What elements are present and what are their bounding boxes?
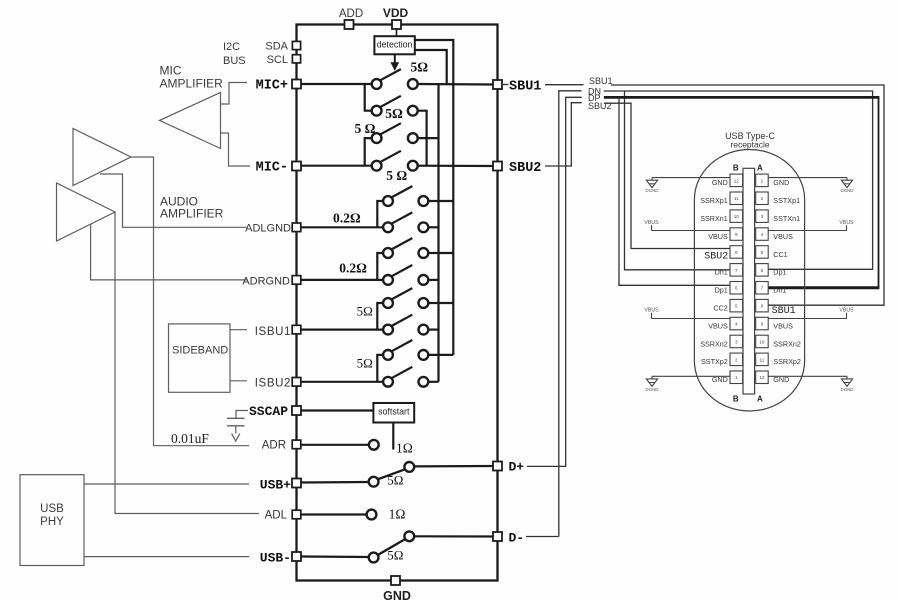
svg-text:4: 4 [735,322,738,327]
svg-text:0.2Ω: 0.2Ω [333,211,361,226]
wire USB+ pin to switch [301,481,369,484]
receptacle pin A12 label GND [773,375,789,384]
receptacle pin B1 box [730,371,743,384]
svg-text:ADR: ADR [262,440,286,452]
svg-text:SSRXp1: SSRXp1 [700,196,728,205]
switch SW7 [383,238,428,258]
svg-text:I2C: I2C [223,41,240,53]
svg-text:SSRXp2: SSRXp2 [773,357,801,366]
label I2C BUS [223,41,246,67]
svg-text:A: A [757,395,763,404]
receptacle pin A4 box [756,228,769,241]
receptacle pin B12 box [730,174,743,187]
node ADL contact [301,510,376,520]
USB PHY block [20,475,84,566]
receptacle pin A11 label SSRXp2 [773,357,801,366]
svg-text:softstart: softstart [378,406,410,416]
wire switch row9 to bus B [428,302,453,304]
svg-text:ADD: ADD [339,8,363,20]
receptacle pin B9 box [730,228,743,241]
receptacle pin B11 box [730,192,743,205]
svg-text:9: 9 [761,322,764,327]
receptacle outline (stadium) [694,150,804,412]
receptacle pin A2 box [756,192,769,205]
wire switch row3 to bus A [417,137,438,139]
pin USB+ [260,478,301,493]
label 1ohm ADR row [396,441,413,456]
power VBUS lower-left [644,308,730,319]
wire vertical bus A [437,84,439,382]
svg-text:5Ω: 5Ω [387,548,403,563]
wire detection output to switch bus B [415,40,454,355]
switch SW6 [383,212,428,232]
wire switch to D+ pin [415,465,494,468]
label DN net [588,86,601,96]
pin ADR [262,440,301,452]
svg-text:SSRXn2: SSRXn2 [773,339,801,348]
svg-text:6: 6 [735,286,738,291]
svg-text:SSTXp2: SSTXp2 [701,357,728,366]
wire ISBU1 pin to switch row10 [301,329,384,331]
receptacle pin B3 label SSRXn2 [700,339,728,348]
pin SSCAP [249,404,301,419]
pin D+ (right) [493,460,524,475]
receptacle pin A3 label SSTXn1 [773,214,800,223]
power VBUS upper-right [768,220,854,231]
svg-text:VBUS: VBUS [708,232,728,241]
label 5ohm pair ISBU1 [357,304,373,319]
receptacle pin A9 box [756,317,769,330]
wire ISBU2 branch to switch row11 [377,355,383,382]
switch SW1 (MIC+ to SBU1) [372,69,418,89]
wire switch row12 to bus A [428,381,439,383]
svg-text:CC1: CC1 [773,250,787,259]
wire SBU2 net from pin to receptacle B8 [545,103,730,249]
receptacle pin A1 box [756,174,769,187]
detection block [374,29,414,55]
receptacle pin A6 box [756,264,769,277]
wire switch row11 to bus B [428,354,453,356]
svg-text:USB: USB [40,503,64,515]
svg-text:7: 7 [735,268,738,273]
svg-text:2: 2 [735,357,738,362]
svg-text:VBUS: VBUS [839,220,854,226]
svg-text:4: 4 [761,232,764,237]
svg-text:12: 12 [759,375,765,380]
wire switch to D- pin [415,535,494,537]
svg-text:Dp1: Dp1 [715,286,728,295]
svg-text:7: 7 [761,286,764,291]
svg-text:SBU2: SBU2 [509,161,541,176]
svg-text:ADL: ADL [265,510,288,522]
arrow from detection to switch [390,54,399,71]
wire MIC- pin to switch row4 [301,165,372,167]
receptacle pin A10 box [756,335,769,348]
pin ISBU1 [255,325,301,338]
wire ADLGND pin to switch row6 [301,226,384,228]
svg-text:SBU1: SBU1 [509,80,541,95]
label 0.2ohm pair ADLGND [333,211,361,226]
switch SW-D+ (USB+ to D+) [369,462,414,487]
svg-text:A: A [757,163,763,172]
svg-text:AMPLIFIER: AMPLIFIER [160,77,224,91]
label SBU2 net [588,101,612,111]
svg-text:1: 1 [735,375,738,380]
svg-text:0.01uF: 0.01uF [171,431,209,446]
label 1ohm ADL row [389,507,406,522]
wire audio amp B output to ADL pin [115,212,259,514]
wire SIDEBAND to ISBU1 [230,329,247,331]
svg-text:6: 6 [761,268,764,273]
wire switch row1 to SBU1 pin [417,83,493,86]
svg-text:SBU2: SBU2 [588,101,612,111]
svg-text:SSTXn1: SSTXn1 [773,214,800,223]
svg-text:VDD: VDD [383,6,409,20]
op-amp audio amplifier B (lower right-pointing triangle) [57,183,116,241]
receptacle pin B7 label Dn1 [715,268,728,277]
switch SW12 [383,367,428,387]
USB Type-C receptacle title [725,131,775,150]
svg-text:SBU2: SBU2 [704,252,728,263]
switch SW10 [383,315,428,335]
wire MIC+ pin to switch row1 [301,83,372,85]
svg-text:SSRXn1: SSRXn1 [700,214,728,223]
pin ISBU2 [255,378,301,390]
svg-text:MIC: MIC [160,64,182,78]
pin GND (bottom) [383,576,411,602]
svg-text:VBUS: VBUS [839,308,854,314]
MIC amplifier label [160,64,224,91]
wire switch row8 to bus A [428,279,439,281]
svg-text:AMPLIFIER: AMPLIFIER [160,207,224,221]
svg-text:5: 5 [735,304,738,309]
svg-text:SSCAP: SSCAP [249,404,288,419]
svg-text:0.2Ω: 0.2Ω [339,261,367,276]
power VBUS upper-left [644,220,730,231]
svg-text:GND: GND [383,589,411,602]
svg-text:SSTXp1: SSTXp1 [773,196,800,205]
receptacle pin A5 label CC1 [773,250,787,259]
switch SW8 [383,265,428,285]
wire switch row5 to bus B [428,200,453,202]
switch SW9 [383,288,428,308]
svg-text:SDA: SDA [265,41,288,53]
receptacle pin B9 label VBUS [708,232,728,241]
svg-text:PHY: PHY [40,516,64,528]
svg-text:DGND: DGND [841,188,854,193]
pin D- (right) [493,531,524,546]
receptacle tongue [743,168,755,394]
receptacle pin B5 box [730,299,743,312]
label 5ohm pair ISBU2 [357,356,373,371]
receptacle pin A7 box [756,282,769,295]
op-amp MIC amplifier (left-pointing triangle) [160,92,221,148]
svg-text:SBU1: SBU1 [772,306,796,317]
receptacle column header B bottom [733,395,739,404]
label 5ohm row3 [355,121,376,136]
svg-text:detection: detection [377,40,413,50]
wire softstart to 1ohm resistor [392,423,394,450]
pin ADL [265,510,301,522]
switch SW2 [372,96,418,116]
svg-text:SBU1: SBU1 [589,76,613,86]
wire SIDEBAND to ISBU2 [230,380,247,382]
svg-text:ADLGND: ADLGND [245,223,291,235]
receptacle pin B6 label Dp1 [715,286,728,295]
svg-text:GND: GND [773,178,789,187]
ground DGND top-right [768,178,853,194]
IC U1 main switch block outline [297,25,498,581]
pin SBU2 (right) [493,161,541,176]
wire MIC+ input to MIC amplifier [221,83,247,105]
pin ADRGND [242,276,300,288]
receptacle pin B1 label GND [712,375,728,384]
wire USB- pin to switch [301,555,369,558]
pin ADLGND [245,223,301,235]
label 5ohm row2 [385,106,403,121]
receptacle pin B6 box [730,282,743,295]
svg-text:10: 10 [734,214,740,219]
receptacle pin A12 box [756,371,769,384]
svg-text:11: 11 [734,196,739,201]
receptacle pin A8 box [756,299,769,312]
switch SW5 [383,186,428,206]
svg-text:2: 2 [761,196,764,201]
svg-text:D+: D+ [509,460,525,475]
SIDEBAND block [169,324,231,392]
receptacle pin B4 box [730,317,743,330]
wire DP net branch to Dp1-B pin [619,97,730,285]
svg-text:Dn1: Dn1 [773,286,786,295]
wire switch row4 to SBU2 pin [417,165,493,168]
svg-text:SCL: SCL [267,54,288,66]
svg-text:Dp1: Dp1 [773,268,786,277]
wire DP net from D+ pin (thick highlighted) [527,97,879,466]
svg-text:D-: D- [509,531,525,546]
receptacle pin B5 label CC2 [713,304,727,313]
wire USB PHY to USB- [84,556,249,558]
svg-text:SIDEBAND: SIDEBAND [172,345,228,357]
wire MIC- input to MIC amplifier [221,133,250,166]
wire ISBU2 pin to switch row12 [301,381,384,383]
svg-text:DGND: DGND [646,387,659,392]
wire audio amp A output to ADR pin [131,157,249,446]
svg-text:12: 12 [734,178,740,183]
label SBU1 net [589,76,613,86]
wire ADRGND to audio amp B input [91,224,248,280]
receptacle pin B8 label SBU2 [704,252,728,263]
svg-text:3: 3 [761,214,764,219]
receptacle pin A3 box [756,210,769,223]
pin VDD [383,6,409,29]
svg-text:VBUS: VBUS [773,232,793,241]
pin SDA [265,41,300,53]
receptacle pin A5 box [756,246,769,259]
svg-text:1Ω: 1Ω [389,507,406,522]
power VBUS lower-right [768,308,854,319]
wire USB PHY to USB+ [84,483,249,485]
label 0.01uF [171,431,209,446]
svg-text:5 Ω: 5 Ω [355,121,376,136]
svg-text:3: 3 [735,339,738,344]
wire MIC- branch to switch row3 [365,138,372,166]
node ADR contact [301,440,379,450]
label 5ohm row1 [411,60,429,75]
receptacle pin B11 label SSRXp1 [700,196,728,205]
wire switch row7 to bus B [428,252,453,254]
capacitor C1 0.01uF on SSCAP [227,411,248,442]
receptacle pin A7 label Dn1 [773,286,786,295]
svg-text:DGND: DGND [841,387,854,392]
pin ADD [339,8,363,29]
wire DN net from D- pin around to Dp1-A pin [526,91,873,537]
pin MIC- [256,161,301,176]
label DP net [588,93,601,103]
wire ADRGND branch to switch row7 [377,253,383,280]
pin USB- [260,551,301,566]
svg-text:USB+: USB+ [260,478,291,493]
svg-text:MIC-: MIC- [256,161,288,176]
op-amp audio amplifier A (upper right-pointing triangle) [73,129,131,186]
switch SW4 (MIC- to SBU2) [372,151,418,171]
pin SBU1 (right) [493,80,541,95]
receptacle pin A1 label GND [773,178,789,187]
label 5ohm D- switch [387,548,403,563]
receptacle column header B top [733,163,739,172]
wire ADLGND to audio amp A input [100,174,247,227]
receptacle pin A2 label SSTXp1 [773,196,800,205]
ground DGND bottom-left [646,376,730,392]
svg-text:USB-: USB- [260,551,291,566]
svg-text:CC2: CC2 [713,304,727,313]
svg-text:5: 5 [761,250,764,255]
wire ISBU1 branch to switch row9 [377,303,383,330]
svg-text:ISBU2: ISBU2 [255,378,291,390]
AUDIO amplifier label [160,195,224,221]
svg-text:5Ω: 5Ω [411,60,429,75]
wire ADRGND pin to switch row8 [301,279,384,281]
label 5ohm D+ switch [387,472,403,487]
receptacle pin B2 box [730,353,743,366]
receptacle pin B10 box [730,210,743,223]
svg-text:ADRGND: ADRGND [242,276,290,288]
receptacle pin B7 box [730,264,743,277]
switch SW-D- (USB- to D-) [369,531,414,562]
svg-text:receptacle: receptacle [730,140,769,150]
receptacle pin A11 box [756,353,769,366]
wire detection output to SBU1 switch node [415,50,447,84]
label 5ohm row4 [386,168,407,183]
receptacle pin A6 label Dp1 [773,268,786,277]
receptacle pin B4 label VBUS [708,321,728,330]
wire ADLGND branch to switch row5 [377,201,383,227]
receptacle pin B2 label SSTXp2 [701,357,728,366]
receptacle pin B12 label GND [712,178,728,187]
svg-text:DGND: DGND [646,188,659,193]
svg-text:ISBU1: ISBU1 [255,326,291,338]
receptacle pin A8 label SBU1 [772,306,796,317]
wire DN net branch to Dn1-B pin [625,91,731,270]
wire switch row10 to bus A [428,329,439,331]
receptacle pin B8 box [730,246,743,259]
label 0.2ohm pair ADRGND [339,261,367,276]
svg-text:Dn1: Dn1 [715,268,728,277]
svg-text:5Ω: 5Ω [387,472,403,487]
svg-text:VBUS: VBUS [708,321,728,330]
pin MIC+ [256,79,301,94]
svg-text:B: B [733,163,739,172]
receptacle pin A10 label SSRXn2 [773,339,801,348]
svg-text:11: 11 [760,357,765,362]
wire switch row2 to SBU2 node [417,111,426,166]
receptacle pin A4 label VBUS [773,232,793,241]
svg-text:9: 9 [735,232,738,237]
svg-text:5Ω: 5Ω [357,356,373,371]
svg-text:B: B [733,395,739,404]
svg-text:8: 8 [761,304,764,309]
svg-text:BUS: BUS [223,55,246,67]
svg-text:1Ω: 1Ω [396,441,413,456]
ground DGND bottom-right [768,376,853,392]
wire switch row6 to bus A [428,226,439,228]
receptacle column header A top [757,163,763,172]
wire MIC+ branch to switch row2 [365,84,372,111]
svg-text:5Ω: 5Ω [385,106,403,121]
svg-text:SSRXn2: SSRXn2 [700,339,728,348]
switch SW11 [383,340,428,360]
receptacle column header A bottom [757,395,763,404]
svg-text:10: 10 [759,339,765,344]
ground DGND top-left [646,178,730,194]
svg-text:VBUS: VBUS [644,308,659,314]
svg-text:8: 8 [735,250,738,255]
svg-text:VBUS: VBUS [773,321,793,330]
receptacle pin B3 box [730,335,743,348]
svg-text:VBUS: VBUS [644,220,659,226]
receptacle pin B10 label SSRXn1 [700,214,728,223]
switch SW3 [372,123,418,143]
svg-text:1: 1 [761,178,764,183]
wire SBU1 net from pin to receptacle A8 [503,85,884,306]
svg-text:5 Ω: 5 Ω [386,168,407,183]
pin SCL [267,54,301,66]
receptacle pin A9 label VBUS [773,321,793,330]
svg-text:GND: GND [712,178,728,187]
softstart block [301,403,414,423]
svg-text:5Ω: 5Ω [357,304,373,319]
svg-text:MIC+: MIC+ [256,79,288,94]
